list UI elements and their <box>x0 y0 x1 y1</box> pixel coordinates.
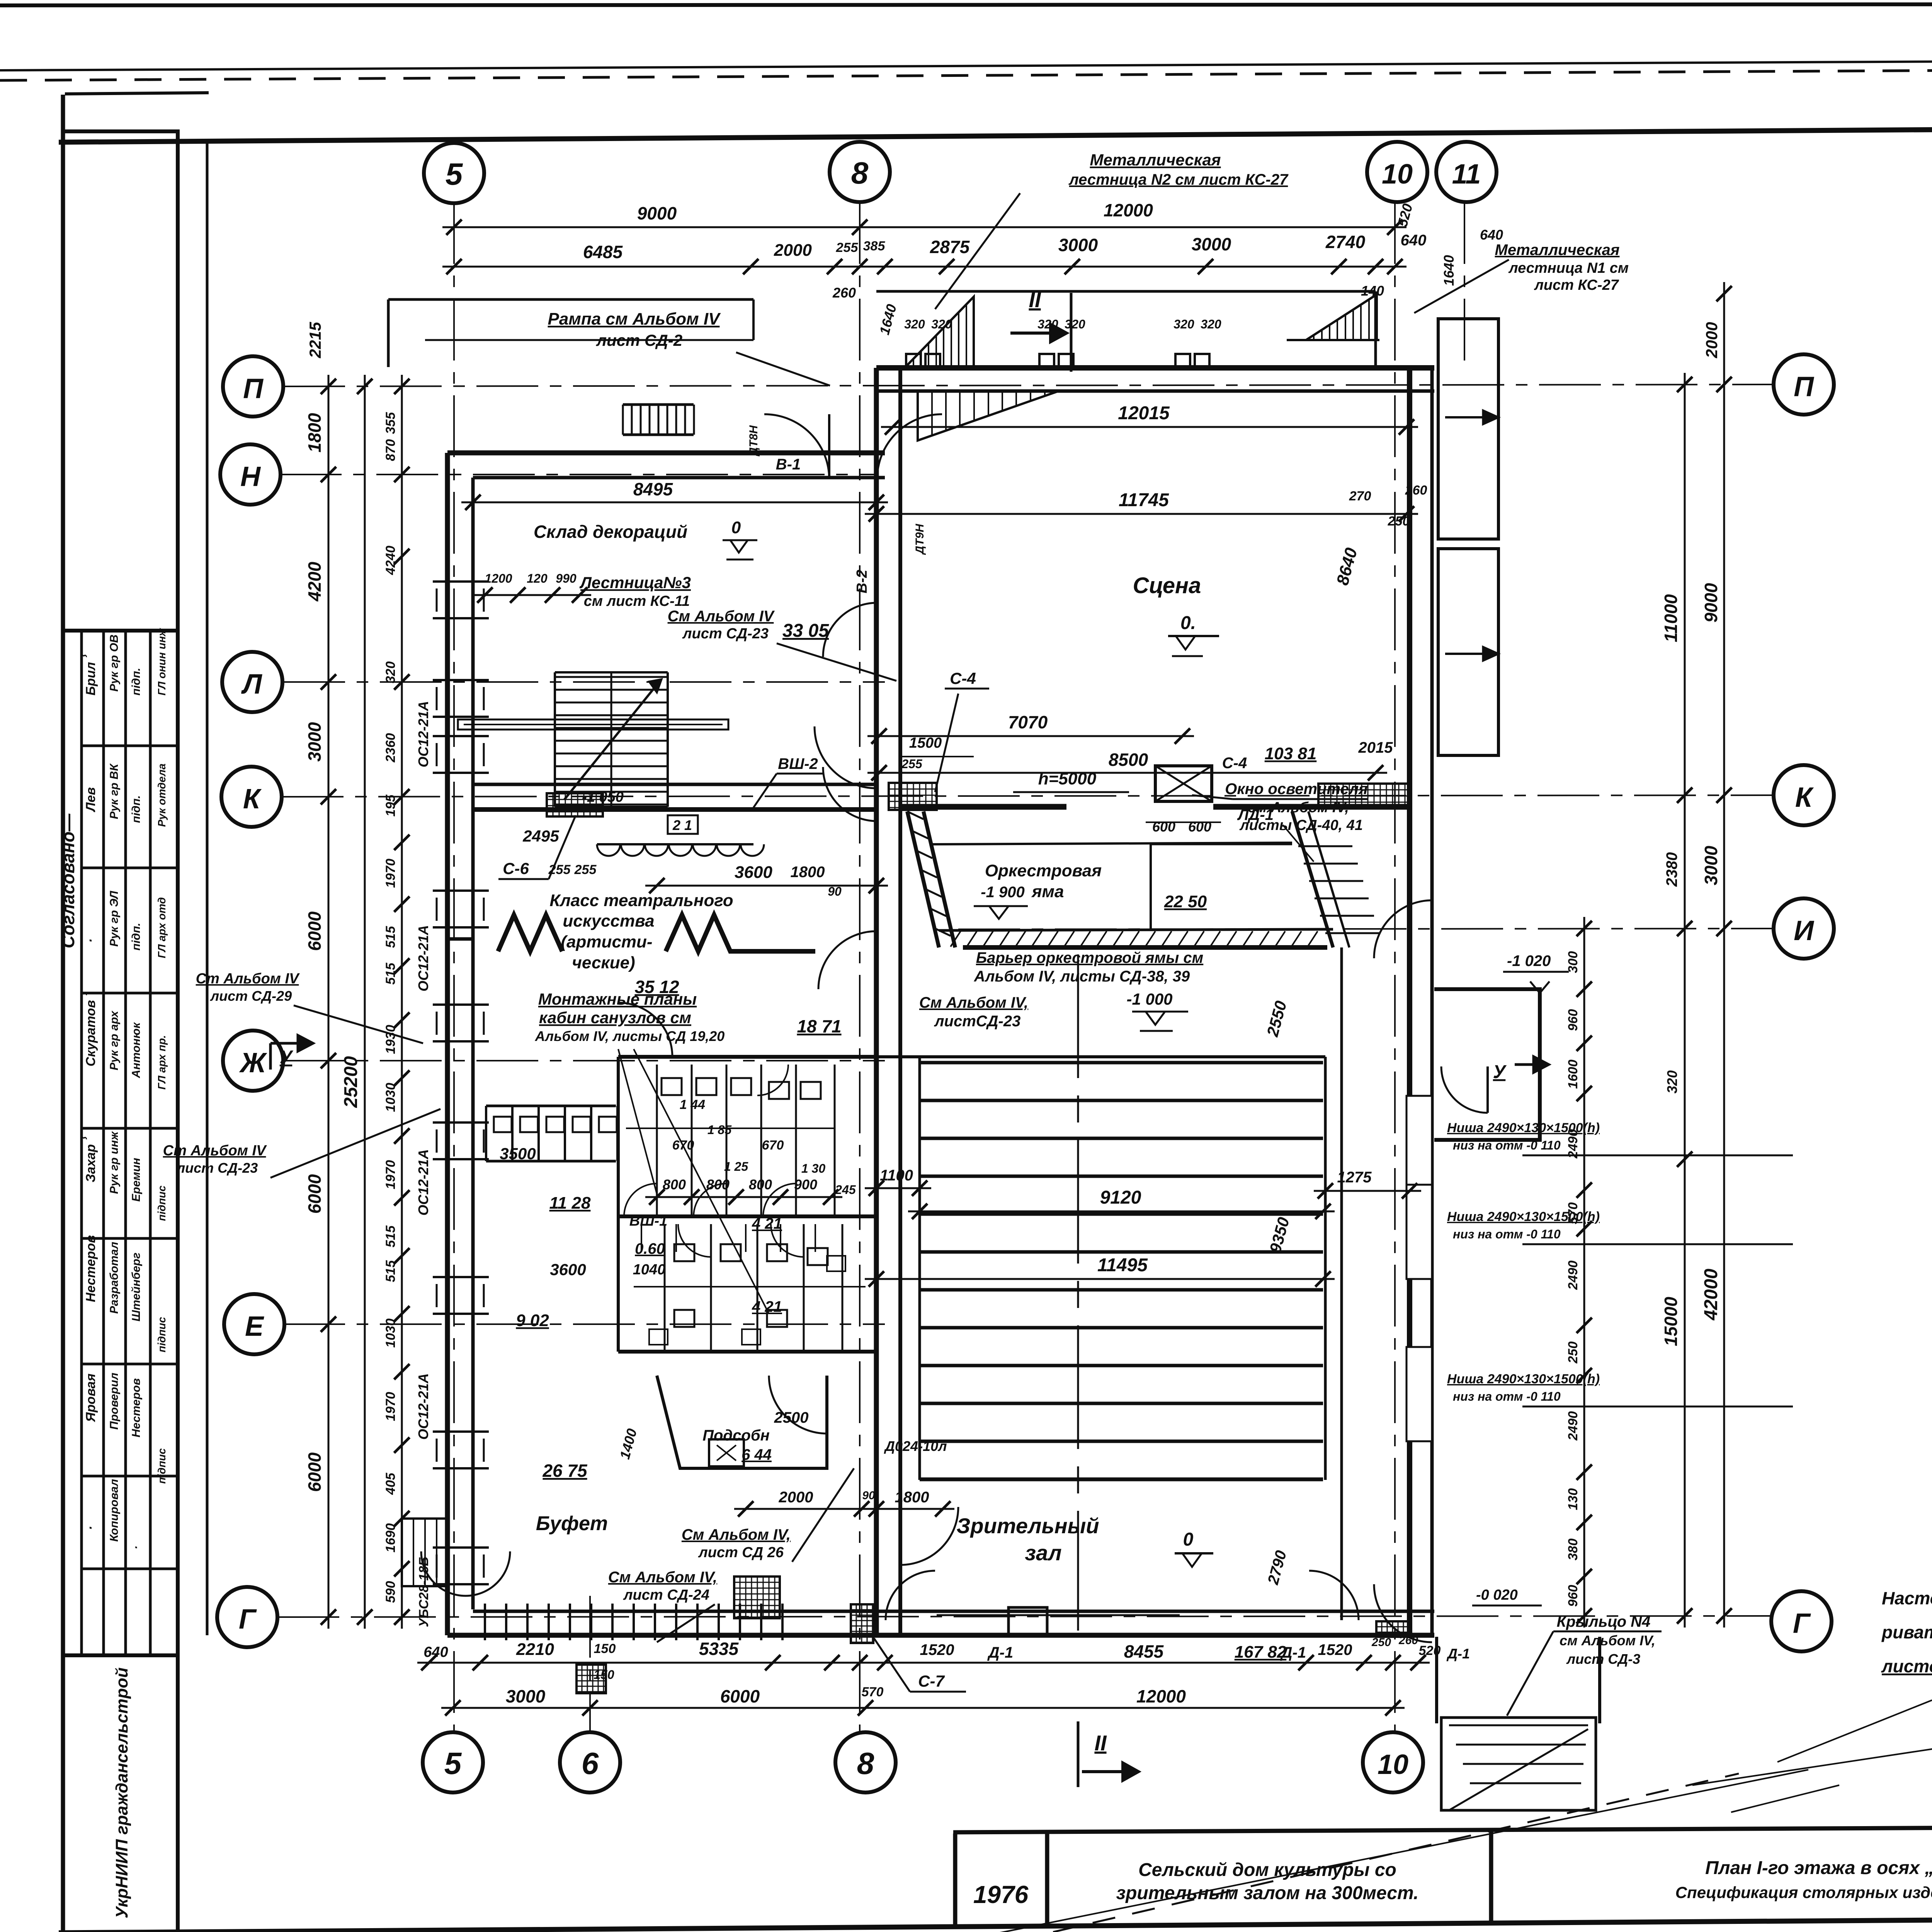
svg-text:підпис: підпис <box>156 1185 168 1221</box>
buffet fixture <box>709 1439 744 1466</box>
svg-text:800: 800 <box>749 1177 772 1192</box>
svg-text:листСД-23: листСД-23 <box>934 1013 1021 1030</box>
svg-text:11: 11 <box>1452 159 1481 190</box>
svg-text:5: 5 <box>444 1746 462 1781</box>
sheet top edge line <box>0 4 1932 5</box>
stage loading porch top edge <box>876 290 1376 293</box>
svg-text:255: 255 <box>836 240 859 255</box>
axis bubble 10 top <box>1367 142 1427 202</box>
svg-text:-0 020: -0 020 <box>1476 1587 1518 1603</box>
interior stage stair hatch below north wall <box>918 391 1059 440</box>
svg-text:42000: 42000 <box>1701 1269 1721 1321</box>
svg-text:2500: 2500 <box>774 1409 809 1426</box>
svg-text:Ниша 2490×130×1500(h): Ниша 2490×130×1500(h) <box>1447 1372 1600 1386</box>
east wall niche notches <box>1406 1096 1432 1190</box>
stamp signature table columns <box>80 631 83 1655</box>
svg-text:ОС12-21А: ОС12-21А <box>415 925 431 992</box>
svg-text:320: 320 <box>383 662 398 684</box>
axis line 10 vertical <box>1394 202 1396 1732</box>
interior wall sanblock bottom <box>618 1350 876 1354</box>
right dim chain outer <box>1723 282 1725 1628</box>
auditorium seats right aisle line <box>1324 1057 1327 1480</box>
svg-text:Н: Н <box>240 461 261 492</box>
svg-text:640: 640 <box>1401 232 1427 249</box>
svg-text:320: 320 <box>904 317 925 331</box>
svg-text:См Альбом IV,: См Альбом IV, <box>682 1526 791 1543</box>
dock stair at sklad north wall <box>623 403 694 406</box>
axis bubble 8 bottom <box>835 1732 896 1793</box>
svg-text:-1 000: -1 000 <box>1126 990 1172 1008</box>
svg-text:9 02: 9 02 <box>516 1311 549 1330</box>
ramp platform left edge <box>387 299 390 367</box>
drawing frame bottom <box>59 1915 1932 1932</box>
svg-text:Яровая: Яровая <box>83 1374 98 1422</box>
scratch lines near note <box>1777 1700 1932 1762</box>
left dim chain outer <box>328 375 330 1629</box>
stage dim 7070 <box>867 735 1194 737</box>
hall dim 1100 <box>865 1187 931 1189</box>
svg-text:Спецификация столярных изделий: Спецификация столярных изделий на этаж <box>1675 1883 1932 1901</box>
svg-text:800: 800 <box>706 1177 730 1192</box>
svg-text:ческие): ческие) <box>572 953 635 972</box>
svg-text:670: 670 <box>762 1138 784 1153</box>
axis line 8 vertical <box>859 202 861 1732</box>
stage dim 12015 <box>881 426 1418 428</box>
svg-text:12000: 12000 <box>1104 200 1153 220</box>
svg-text:ривать совместно с: ривать совместно с <box>1881 1622 1932 1642</box>
svg-text:4200: 4200 <box>304 561 325 602</box>
svg-text:7070: 7070 <box>1008 712 1048 732</box>
wall stage north outer <box>876 365 1434 371</box>
svg-text:лист СД-2: лист СД-2 <box>596 331 682 349</box>
svg-text:Г: Г <box>1793 1608 1811 1639</box>
axis bubble N left <box>220 444 281 505</box>
wall stage north inner <box>876 389 1434 393</box>
svg-text:підп.: підп. <box>130 795 143 823</box>
stage dim 8500 <box>867 772 1387 774</box>
svg-text:Сцена: Сцена <box>1133 573 1201 598</box>
title block cell divider 2 <box>1489 1830 1493 1922</box>
svg-text:385: 385 <box>863 239 886 253</box>
axis bubble P left <box>223 356 283 417</box>
bottom dim chain axes <box>441 1707 1405 1709</box>
svg-text:(артисти-: (артисти- <box>561 932 652 951</box>
svg-text:515: 515 <box>383 1225 398 1248</box>
svg-text:Сельский дом культуры со: Сельский дом культуры со <box>1138 1860 1396 1880</box>
orchestra pit stair LD-1 diagonal <box>1292 811 1333 947</box>
axis bubble I right <box>1774 898 1834 959</box>
auditorium rear row line <box>920 1479 1323 1481</box>
svg-text:h=5000: h=5000 <box>1038 769 1097 788</box>
svg-text:лестница N1 см: лестница N1 см <box>1508 260 1629 276</box>
coat hook arcs row <box>597 844 620 856</box>
class room zigzag symbol right <box>666 915 815 951</box>
svg-text:195: 195 <box>383 794 398 817</box>
svg-text:2740: 2740 <box>1325 232 1366 252</box>
svg-text:6: 6 <box>582 1746 599 1781</box>
svg-text:И: И <box>1794 915 1815 946</box>
svg-text:960: 960 <box>1566 1009 1580 1031</box>
orchestra pit left diagonal hatched wall <box>907 811 939 947</box>
svg-text:670: 670 <box>672 1138 694 1153</box>
sanblock fixtures small squares <box>662 1078 682 1095</box>
svg-text:640: 640 <box>1480 227 1503 243</box>
svg-text:8500: 8500 <box>1109 750 1148 770</box>
svg-text:Рук гр ВК: Рук гр ВК <box>108 763 121 819</box>
orchestra pit barrier <box>939 929 1333 930</box>
svg-text:590: 590 <box>383 1581 398 1603</box>
wall left block north outer <box>447 451 885 456</box>
proscenium pier left crosshatched <box>889 783 937 810</box>
axis bubble 5 top <box>424 143 484 203</box>
svg-text:Класс театрального: Класс театрального <box>549 891 733 910</box>
svg-text:Брилⸯ: Брилⸯ <box>82 653 98 696</box>
wardrobe small squares row <box>494 1117 512 1132</box>
stage dim 11745 <box>865 513 1418 515</box>
svg-text:960: 960 <box>1566 1585 1580 1607</box>
svg-text:С-4: С-4 <box>950 669 976 687</box>
svg-text:ДТ9Н: ДТ9Н <box>913 523 926 555</box>
buffet counter trapezoid <box>657 1376 827 1468</box>
svg-text:3500: 3500 <box>500 1145 536 1163</box>
svg-text:Рук отдела: Рук отдела <box>156 764 168 827</box>
sanblock extra partition stubs <box>641 1224 642 1252</box>
svg-text:Штейнберг: Штейнберг <box>130 1253 143 1321</box>
interior wall sanblock mid <box>618 1214 876 1218</box>
auditorium seats left aisle line <box>918 1057 921 1480</box>
drawing frame left <box>61 95 65 1932</box>
svg-text:120: 120 <box>527 571 548 585</box>
svg-text:8455: 8455 <box>1124 1641 1164 1662</box>
stage ramp stair hatch left <box>906 297 974 366</box>
hall dim 11495 <box>865 1278 1335 1280</box>
sklad dekoratsiy dim 8495 <box>461 502 888 503</box>
svg-text:Металлическая: Металлическая <box>1090 151 1221 169</box>
svg-text:1030: 1030 <box>383 1318 398 1348</box>
boxed label 21 <box>668 815 698 834</box>
corridor door arcs top <box>764 414 829 479</box>
svg-text:II: II <box>1094 1731 1107 1755</box>
svg-text:1970: 1970 <box>383 1160 398 1189</box>
svg-text:2490: 2490 <box>1566 1411 1580 1441</box>
svg-text:4 21: 4 21 <box>752 1215 782 1232</box>
svg-text:1970: 1970 <box>383 859 398 888</box>
svg-text:2215: 2215 <box>306 322 324 359</box>
V-2 gate arcs <box>823 603 877 657</box>
class room zigzag symbol left <box>498 915 562 951</box>
montage plan leader lines <box>618 1049 657 1194</box>
svg-text:6000: 6000 <box>304 1174 325 1214</box>
svg-text:1976: 1976 <box>973 1881 1029 1908</box>
svg-text:·: · <box>83 939 98 943</box>
svg-text:Буфет: Буфет <box>536 1512 608 1535</box>
axis bubble 8 top <box>830 142 890 202</box>
stage north wall window stubs <box>906 354 921 368</box>
svg-text:Лестница№3: Лестница№3 <box>579 573 691 592</box>
svg-text:Рук гр арх: Рук гр арх <box>108 1010 121 1070</box>
dim 3600 wardrobe <box>645 885 888 887</box>
svg-text:3000: 3000 <box>1192 234 1231 254</box>
svg-text:6 44: 6 44 <box>742 1446 772 1463</box>
svg-text:1100: 1100 <box>880 1167 913 1184</box>
svg-text:90: 90 <box>828 884 842 898</box>
svg-text:В-2: В-2 <box>854 570 870 593</box>
svg-text:150: 150 <box>594 1641 616 1656</box>
svg-text:2000: 2000 <box>774 241 812 260</box>
right dim chain middle <box>1684 373 1686 1628</box>
svg-text:8: 8 <box>857 1746 874 1781</box>
svg-text:Согласовано—: Согласовано— <box>58 813 78 948</box>
svg-text:ГЛ онин инж: ГЛ онин инж <box>156 628 168 696</box>
svg-text:низ на отм -0 110: низ на отм -0 110 <box>1453 1389 1561 1403</box>
svg-text:3000: 3000 <box>1701 845 1721 885</box>
axis bubble G right <box>1771 1591 1832 1651</box>
svg-text:26 75: 26 75 <box>542 1461 588 1481</box>
svg-text:900: 900 <box>794 1177 817 1192</box>
svg-text:405: 405 <box>383 1473 398 1495</box>
svg-text:2000: 2000 <box>1702 322 1721 358</box>
svg-text:5335: 5335 <box>699 1639 739 1659</box>
svg-text:Подсобн: Подсобн <box>702 1427 770 1444</box>
entrance door arcs bottom-left exterior <box>421 1551 466 1596</box>
svg-text:1500: 1500 <box>909 735 942 751</box>
svg-text:ВШ-1: ВШ-1 <box>629 1213 667 1229</box>
svg-text:1200: 1200 <box>485 571 512 585</box>
svg-text:1800: 1800 <box>791 864 825 881</box>
svg-text:9000: 9000 <box>637 203 677 223</box>
svg-text:33 05: 33 05 <box>782 621 829 641</box>
svg-text:см Альбом IV,: см Альбом IV, <box>1248 799 1349 816</box>
south wall door arcs <box>886 1571 935 1620</box>
ramp inner ledge <box>425 339 753 341</box>
svg-text:3600: 3600 <box>550 1260 586 1279</box>
porch krylco4 steps <box>1441 1718 1596 1810</box>
piers on south wall <box>851 1604 873 1643</box>
svg-text:6485: 6485 <box>583 242 623 262</box>
svg-text:см Альбом IV,: см Альбом IV, <box>1560 1633 1655 1648</box>
axis bubble 11 top <box>1436 142 1497 202</box>
svg-text:Металлическая: Металлическая <box>1495 241 1620 259</box>
svg-text:600: 600 <box>1152 819 1175 835</box>
exterior stair shaft upper right <box>1438 319 1498 539</box>
svg-text:·: · <box>130 1546 143 1549</box>
sanblock door arcs <box>624 1184 657 1216</box>
sheet second top line <box>0 58 1932 70</box>
svg-text:Альбом IV, листы СД 19,20: Альбом IV, листы СД 19,20 <box>535 1028 725 1044</box>
svg-text:9120: 9120 <box>1100 1187 1141 1208</box>
axis line Zh horizontal <box>283 1060 885 1061</box>
wall stage east outer <box>1407 368 1412 1635</box>
axis bubble E left <box>224 1294 284 1354</box>
svg-text:1 85: 1 85 <box>707 1123 732 1137</box>
axis bubble P right <box>1774 354 1834 415</box>
stair flight N3 treads horizontal <box>555 676 668 678</box>
svg-text:355: 355 <box>383 412 398 434</box>
svg-text:870: 870 <box>383 439 398 461</box>
svg-text:Скуратовⸯ: Скуратовⸯ <box>82 992 98 1066</box>
svg-text:10: 10 <box>1378 1749 1408 1780</box>
svg-text:11495: 11495 <box>1097 1255 1148 1276</box>
svg-text:листы СД-40, 41: листы СД-40, 41 <box>1239 817 1363 833</box>
tambour door arc <box>1441 1066 1488 1113</box>
svg-text:яма: яма <box>1031 882 1064 901</box>
svg-text:260: 260 <box>832 285 856 301</box>
interior wall sanblock left vertical <box>617 1057 620 1352</box>
svg-text:К: К <box>243 784 262 815</box>
door arc sklad right <box>815 726 876 788</box>
axis line K horizontal <box>282 795 1774 797</box>
svg-text:600: 600 <box>1188 819 1211 835</box>
svg-text:ДТ8Н: ДТ8Н <box>747 425 760 457</box>
svg-text:Рук гр ОВ: Рук гр ОВ <box>108 634 121 692</box>
svg-text:22 50: 22 50 <box>1164 892 1207 911</box>
orchestra pit divider <box>1150 844 1152 929</box>
svg-text:ОС12-21А: ОС12-21А <box>415 1149 431 1216</box>
svg-text:Д-1: Д-1 <box>1446 1646 1470 1662</box>
title block diagonal scratch <box>618 1774 1739 1932</box>
svg-text:2210: 2210 <box>516 1640 554 1659</box>
svg-text:У: У <box>280 1047 294 1068</box>
svg-text:ВШ-2: ВШ-2 <box>778 755 818 772</box>
proscenium pier right crosshatched <box>1318 784 1410 808</box>
svg-text:підпис: підпис <box>156 1448 168 1484</box>
svg-text:90: 90 <box>862 1489 875 1502</box>
top dim chain 9000/12000 <box>442 226 1406 228</box>
svg-text:С-4: С-4 <box>1222 755 1247 772</box>
svg-text:0: 0 <box>1183 1529 1194 1550</box>
svg-text:245: 245 <box>835 1183 856 1197</box>
svg-text:Д-1: Д-1 <box>987 1644 1013 1661</box>
svg-text:1 44: 1 44 <box>680 1097 705 1112</box>
svg-text:См Альбом IV: См Альбом IV <box>668 608 775 625</box>
right dim chain wall fine <box>1583 917 1585 1628</box>
svg-text:Ст Альбом IV: Ст Альбом IV <box>163 1143 267 1159</box>
stair landing band <box>458 719 728 730</box>
wall left block west inner <box>471 478 475 1609</box>
svg-text:320: 320 <box>931 317 952 331</box>
svg-text:515: 515 <box>383 963 398 985</box>
svg-text:12015: 12015 <box>1118 403 1170 423</box>
svg-text:лист СД-23: лист СД-23 <box>682 626 769 642</box>
axis line L horizontal <box>283 681 885 683</box>
svg-text:Оркестровая: Оркестровая <box>985 861 1102 880</box>
svg-text:Рук гр инж: Рук гр инж <box>108 1131 121 1194</box>
svg-text:6000: 6000 <box>304 911 325 951</box>
svg-text:Копировал: Копировал <box>108 1479 121 1542</box>
south wall center recess <box>1009 1607 1047 1634</box>
svg-text:Ж: Ж <box>239 1048 267 1078</box>
wall stage-left shared vertical inner <box>898 368 902 1635</box>
axis line 11 vertical <box>1464 202 1465 371</box>
svg-text:12000: 12000 <box>1136 1686 1186 1706</box>
svg-text:1520: 1520 <box>920 1641 954 1658</box>
svg-text:10: 10 <box>1382 159 1413 190</box>
svg-text:2490: 2490 <box>1566 1260 1580 1290</box>
interior wall sanblock top <box>618 1055 876 1059</box>
svg-text:См Альбом IV,: См Альбом IV, <box>919 994 1028 1011</box>
svg-text:320: 320 <box>1173 317 1194 331</box>
left wall window tick pairs <box>433 580 489 583</box>
svg-text:листом АР-6: листом АР-6 <box>1881 1656 1932 1676</box>
svg-text:зал: зал <box>1025 1541 1061 1565</box>
svg-text:1930: 1930 <box>383 1025 398 1054</box>
top-left corner line <box>65 93 209 94</box>
top dim chain second row <box>442 266 1406 268</box>
lighting window box <box>1155 766 1212 801</box>
pier at axis 6 south <box>577 1665 606 1693</box>
svg-text:Ниша 2490×130×1500(h): Ниша 2490×130×1500(h) <box>1447 1209 1600 1224</box>
svg-text:6000: 6000 <box>304 1452 325 1492</box>
svg-text:18 71: 18 71 <box>797 1016 841 1036</box>
svg-text:У: У <box>1493 1062 1507 1082</box>
svg-text:3000: 3000 <box>304 722 325 762</box>
tambour bump at axis I <box>1434 989 1540 1140</box>
svg-text:1040: 1040 <box>633 1262 666 1278</box>
axis line N horizontal <box>280 474 877 475</box>
svg-text:380: 380 <box>1566 1539 1580 1561</box>
svg-text:270: 270 <box>1349 489 1371 503</box>
svg-text:320: 320 <box>1664 1070 1680 1094</box>
svg-text:Окно осветителя: Окно осветителя <box>1225 781 1367 798</box>
bottom wall window ticks <box>484 1604 486 1640</box>
svg-text:Г: Г <box>239 1604 257 1635</box>
svg-text:5: 5 <box>446 157 463 191</box>
svg-text:См Альбом IV,: См Альбом IV, <box>608 1569 717 1586</box>
door arc buffet <box>769 1376 827 1434</box>
sheet top dashed scan line <box>0 66 1932 80</box>
svg-text:С-7: С-7 <box>918 1672 945 1690</box>
svg-text:кабин санузлов см: кабин санузлов см <box>539 1009 691 1027</box>
svg-text:1 30: 1 30 <box>801 1162 825 1175</box>
svg-text:2015: 2015 <box>1358 739 1393 756</box>
svg-text:2000: 2000 <box>779 1489 813 1506</box>
inner border line right of stamp <box>206 142 209 1635</box>
left dim chain overall 25200 <box>364 375 366 1629</box>
svg-text:-1 900: -1 900 <box>981 884 1024 901</box>
svg-text:лист СД-24: лист СД-24 <box>623 1587 709 1603</box>
svg-text:8: 8 <box>851 156 869 190</box>
svg-text:255: 255 <box>548 862 571 877</box>
grid shaft square left of hall <box>734 1577 780 1618</box>
svg-text:Настоящий лист рассмат-: Настоящий лист рассмат- <box>1882 1588 1932 1608</box>
title block 1976 cell <box>953 1833 957 1926</box>
svg-text:0: 0 <box>731 518 741 537</box>
svg-text:Барьер оркестровой ямы см: Барьер оркестровой ямы см <box>976 949 1204 966</box>
svg-text:800: 800 <box>663 1177 686 1192</box>
svg-text:низ на отм -0 110: низ на отм -0 110 <box>1453 1227 1561 1241</box>
svg-text:Склад декораций: Склад декораций <box>534 522 687 542</box>
svg-text:Д-1: Д-1 <box>1280 1644 1306 1661</box>
svg-text:11000: 11000 <box>1661 594 1681 642</box>
axis line G horizontal <box>277 1616 1774 1617</box>
svg-text:1600: 1600 <box>1566 1060 1580 1089</box>
svg-text:320: 320 <box>1201 317 1221 331</box>
svg-text:лист СД-23: лист СД-23 <box>176 1160 258 1176</box>
svg-text:Проверил: Проверил <box>108 1372 121 1430</box>
svg-text:11 28: 11 28 <box>549 1194 591 1213</box>
svg-text:255: 255 <box>574 862 597 877</box>
svg-text:Рампа см Альбом IV: Рампа см Альбом IV <box>548 310 721 328</box>
svg-text:Нестеров: Нестеров <box>130 1378 143 1437</box>
svg-text:515: 515 <box>383 1260 398 1282</box>
pier S-6 crosshatched <box>547 793 603 816</box>
svg-text:Ниша 2490×130×1500(h): Ниша 2490×130×1500(h) <box>1447 1121 1600 1135</box>
svg-text:ГЛ арх пр.: ГЛ арх пр. <box>156 1035 168 1090</box>
svg-text:С-6: С-6 <box>503 859 529 878</box>
svg-text:0.: 0. <box>1180 613 1196 633</box>
svg-text:Крыльцо N4: Крыльцо N4 <box>1557 1613 1651 1630</box>
auditorium seating platform top <box>876 1055 1325 1058</box>
